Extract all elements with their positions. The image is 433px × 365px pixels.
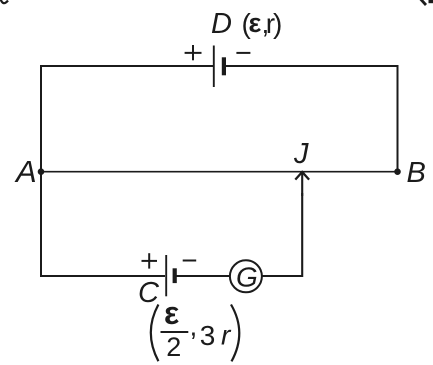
svg-text:,: ,: [190, 311, 198, 342]
wire: middle wire A to B: [41, 171, 398, 173]
label (ε/2, 3r) of battery C: [151, 295, 239, 362]
svg-text:B: B: [407, 157, 426, 189]
big right parenthesis: [231, 305, 239, 362]
wire: bottom wire from galvanometer to arrow corner, then up: [263, 193, 303, 276]
partial glyph top-left corner: [1, 0, 9, 3]
galvanometer G: [230, 260, 262, 292]
svg-text:): ): [273, 8, 282, 39]
label (ε,r) of battery D: [242, 8, 283, 39]
big left parenthesis: [151, 305, 159, 362]
minus sign of battery D: [236, 52, 250, 54]
wire: top wire right segment and right vertical down to B: [226, 66, 398, 171]
svg-text:ε: ε: [164, 295, 179, 331]
svg-text:3: 3: [200, 320, 216, 351]
battery C: [166, 255, 177, 296]
svg-text:D: D: [211, 8, 232, 40]
svg-text:2: 2: [166, 332, 181, 362]
wire: top-left loop (top wire left segment, left vertical, bottom wire left segment): [41, 66, 214, 276]
plus sign of battery C: [142, 253, 158, 268]
fraction bar: [161, 331, 189, 333]
svg-text:J: J: [293, 138, 309, 170]
node B: [394, 168, 401, 175]
partial glyph top-right corner: [421, 0, 427, 5]
svg-text:ε: ε: [249, 8, 262, 38]
svg-text:A: A: [14, 154, 37, 189]
node A: [38, 168, 45, 175]
battery D: [214, 46, 226, 88]
svg-text:C: C: [138, 277, 160, 309]
svg-text:G: G: [236, 261, 258, 292]
wire: bottom wire from battery C to galvanometer: [176, 275, 230, 277]
jockey arrow at J: [295, 172, 309, 196]
minus sign of battery C: [183, 260, 197, 262]
plus sign of battery D: [185, 45, 202, 60]
